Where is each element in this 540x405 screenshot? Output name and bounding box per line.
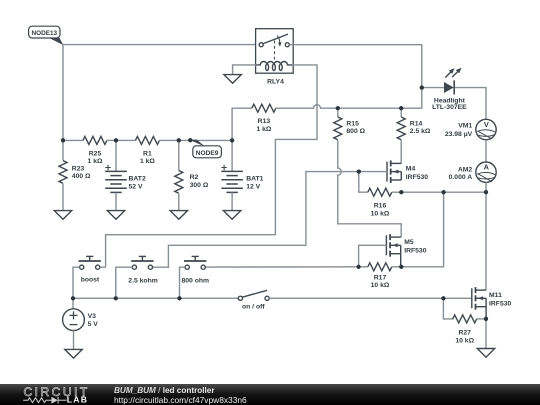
svg-text:800 Ω: 800 Ω	[346, 128, 365, 135]
wire AM2 node down to M11 drain	[485, 192, 487, 290]
junction dot bus left	[61, 138, 65, 142]
wire NODE13 to relay left pin	[63, 44, 259, 46]
wire R23 to ground	[62, 184, 64, 211]
wire LED anode lead	[422, 87, 444, 89]
junction dots overlay	[420, 86, 424, 90]
battery BAT2	[105, 165, 127, 193]
wire R15 down with hop over gate row, to M5 drain	[338, 140, 401, 237]
svg-text:1 kΩ: 1 kΩ	[140, 158, 155, 165]
wire R16 right lead	[392, 191, 402, 193]
wire AM2 down to source row	[485, 182, 487, 192]
svg-text:VM1: VM1	[458, 122, 472, 129]
wire M4 gate row to 2.5kohm switch	[153, 172, 387, 268]
svg-text:M11: M11	[489, 292, 502, 299]
wire VM1 to AM2	[485, 140, 487, 162]
svg-text:boost: boost	[81, 277, 100, 284]
ground under V3	[65, 349, 82, 358]
svg-text:BAT1: BAT1	[246, 176, 263, 183]
junction dot R14 top	[399, 106, 403, 110]
resistor R2	[175, 171, 183, 194]
svg-text:R1: R1	[143, 150, 152, 157]
junction dot bus 800ohm	[177, 296, 181, 300]
resistor R25	[83, 136, 107, 144]
svg-text:on / off: on / off	[242, 304, 265, 311]
svg-text:AM2: AM2	[458, 166, 473, 173]
svg-text:RLY4: RLY4	[267, 79, 284, 86]
resistor R1	[135, 136, 159, 144]
resistor R14	[397, 117, 405, 140]
wire R2 top lead	[178, 140, 180, 170]
svg-text:R16: R16	[374, 203, 387, 210]
svg-text:V3: V3	[88, 313, 97, 320]
battery BAT1	[221, 165, 243, 193]
node NODE9 label	[189, 140, 222, 158]
wire LED cathode to VM1	[455, 88, 486, 120]
wire R16 left leg	[359, 172, 368, 193]
resistor R13	[252, 104, 276, 112]
junction dot bus R2	[177, 138, 181, 142]
junction dot M5 source	[399, 265, 403, 269]
wire BAT2 bottom to ground	[115, 192, 117, 210]
transistor M11 IRF530	[472, 287, 486, 310]
transistor M4 IRF530	[387, 160, 401, 183]
wire bus left segment	[63, 139, 83, 141]
svg-text:R13: R13	[258, 118, 271, 125]
wire R17 right lead	[392, 266, 402, 268]
switch 2.5 kohm pushbutton	[131, 256, 153, 269]
svg-text:23.98 µV: 23.98 µV	[445, 131, 473, 138]
transistor M5 IRF530	[386, 234, 400, 257]
resistor R16	[368, 188, 392, 196]
junction dot LED anode node	[420, 86, 424, 90]
svg-text:52 V: 52 V	[129, 184, 143, 191]
switch on / off	[238, 290, 269, 300]
svg-text:5 V: 5 V	[88, 321, 99, 328]
LED Headlight LTL-307EE	[444, 68, 462, 95]
svg-text:NODE13: NODE13	[32, 30, 58, 37]
wire BAT2 top lead	[115, 140, 117, 171]
svg-text:400 Ω: 400 Ω	[72, 173, 91, 180]
svg-text:300 Ω: 300 Ω	[190, 182, 209, 189]
wire bottom bus left segment	[73, 297, 238, 299]
voltmeter VM1	[476, 119, 496, 139]
svg-text:1 kΩ: 1 kΩ	[256, 126, 271, 133]
wire boost right contact stub	[100, 266, 106, 268]
wire bus R1 to BAT1	[159, 139, 232, 141]
junction dot M5 gate R17	[357, 265, 361, 269]
svg-text:2.5 kohm: 2.5 kohm	[128, 278, 157, 285]
ammeter AM2	[476, 162, 496, 182]
footer logo CircuitLab	[23, 385, 90, 405]
resistor R15	[334, 117, 342, 140]
junction dot M4 gate R16	[357, 170, 361, 174]
svg-text:A: A	[484, 163, 490, 172]
resistor R27	[453, 315, 477, 323]
wire R14 top lead	[400, 108, 402, 117]
svg-text:R25: R25	[89, 150, 102, 157]
junction dot bus 2.5kohm	[114, 296, 118, 300]
wire BAT1 bottom to ground	[231, 192, 233, 210]
wire R13 left lead to bus	[232, 108, 252, 140]
ground under BAT2	[107, 211, 124, 220]
wire R17 left lead	[359, 266, 368, 268]
wire bottom bus right segment	[269, 297, 472, 299]
wire R15 top lead	[337, 108, 339, 117]
node NODE13 label	[29, 26, 64, 45]
svg-text:LTL-307EE: LTL-307EE	[432, 104, 467, 111]
wire R25 right lead	[107, 139, 116, 141]
svg-text:R14: R14	[410, 120, 423, 127]
junction dot bus BAT1	[230, 138, 234, 142]
svg-text:R17: R17	[374, 274, 387, 281]
resistor R23	[59, 161, 67, 184]
switch boost pushbutton	[79, 256, 101, 269]
svg-text:M5: M5	[404, 239, 414, 246]
wire V3 top lead	[72, 298, 74, 309]
junction dot bus BAT2	[114, 138, 118, 142]
junction dot M11 source	[484, 317, 488, 321]
svg-text:10 kΩ: 10 kΩ	[371, 210, 390, 217]
wire R23 top lead	[62, 140, 64, 160]
wire BAT1 top lead	[231, 140, 233, 171]
svg-text:IRF530: IRF530	[404, 248, 427, 255]
wire R14 to M4 drain	[400, 140, 402, 163]
svg-text:NODE9: NODE9	[196, 150, 219, 157]
svg-text:10 kΩ: 10 kΩ	[371, 282, 390, 289]
resistor R17	[368, 263, 392, 271]
svg-text:IRF530: IRF530	[406, 174, 429, 181]
junction dot NODE9 anchor	[188, 138, 192, 142]
junction dot source row to M5 row	[442, 190, 446, 194]
svg-text:0.000 A: 0.000 A	[449, 174, 473, 181]
wire R1 left lead	[116, 139, 135, 141]
wire R27 left leg	[443, 298, 453, 319]
svg-text:R15: R15	[346, 120, 359, 127]
svg-text:R23: R23	[72, 165, 85, 172]
wire M11 source to ground	[485, 319, 487, 349]
ground under R23	[54, 211, 71, 220]
wire 2.5kohm left contact down to bus	[116, 267, 133, 298]
svg-text:V: V	[484, 120, 489, 129]
wire 800ohm to R17 row	[206, 266, 359, 268]
wire top rail with hop over coil wire	[276, 88, 422, 109]
svg-text:800 ohm: 800 ohm	[182, 278, 210, 285]
wire relay right pin to LED node	[289, 45, 422, 88]
switch 800 ohm pushbutton	[184, 256, 206, 269]
wire V3 bottom to ground	[73, 331, 75, 350]
junction dot bus V3	[71, 296, 75, 300]
wire relay coil left to ground	[233, 65, 257, 75]
svg-text:R27: R27	[458, 330, 471, 337]
svg-text:LAB: LAB	[67, 394, 88, 404]
svg-text:12 V: 12 V	[246, 184, 260, 191]
ground under R2	[170, 211, 187, 220]
junction dot AM2 bottom	[484, 190, 488, 194]
ground under M11	[477, 349, 494, 358]
ground under BAT1	[223, 211, 240, 220]
svg-text:2.5 kΩ: 2.5 kΩ	[410, 128, 431, 135]
svg-text:R2: R2	[190, 174, 199, 181]
wire boost left contact down to bus	[73, 267, 80, 298]
junction dot R15 top	[336, 106, 340, 110]
wire down from source row to R17 row	[401, 192, 443, 267]
wire relay coil right to boost switch	[106, 65, 317, 267]
wire M11 source down	[485, 307, 487, 319]
wire M5 gate to R17 left node	[359, 245, 387, 266]
svg-text:IRF530: IRF530	[489, 301, 512, 308]
wire NODE13 down to left bus	[62, 45, 64, 141]
wire M4 source row to AM2	[401, 191, 486, 193]
relay RLY4	[256, 29, 294, 73]
ground under relay coil	[224, 75, 241, 84]
wire M5 source down	[400, 254, 402, 267]
junction dot M11 gate node	[441, 296, 445, 300]
source V3	[63, 309, 85, 331]
wire R2 to ground	[178, 194, 180, 211]
junction dot M4 source	[399, 190, 403, 194]
svg-text:M4: M4	[406, 166, 416, 173]
svg-text:BAT2: BAT2	[129, 176, 146, 183]
wire 800ohm left contact down to bus	[180, 267, 186, 298]
wire R27 right lead	[477, 318, 486, 320]
svg-text:10 kΩ: 10 kΩ	[455, 338, 474, 345]
svg-text:1 kΩ: 1 kΩ	[88, 158, 103, 165]
